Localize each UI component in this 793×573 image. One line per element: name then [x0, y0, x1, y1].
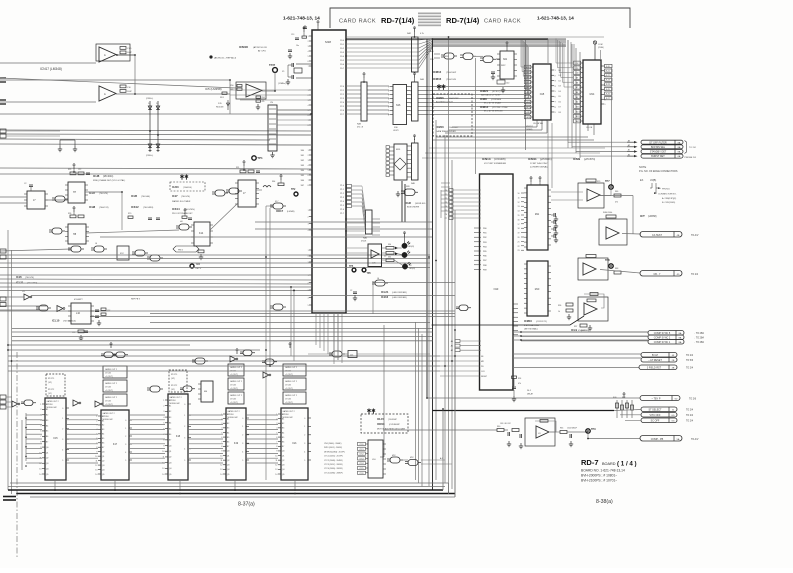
svg-text:CTC84: CTC84 [103, 416, 109, 418]
svg-text:5D: 5D [675, 399, 678, 401]
svg-text:MODEL 84C: MODEL 84C [170, 403, 181, 405]
led vcc [404, 233, 406, 237]
svg-text:B7: B7 [227, 446, 229, 448]
resistor after TP7 [614, 194, 621, 197]
wire eprom right vertical [611, 68, 613, 186]
svg-text:(2X84+): (2X84+) [146, 98, 154, 100]
svg-text:47k: 47k [262, 101, 265, 103]
wire y174 [0, 173, 311, 175]
gate ICM12a [444, 53, 454, 59]
flag LP RESET [641, 358, 677, 363]
svg-text:4: 4 [308, 51, 309, 53]
svg-text:Q0: Q0 [227, 451, 229, 453]
svg-text:B3: B3 [46, 420, 48, 422]
svg-text:8-27: 8-27 [606, 98, 610, 100]
cpu top parts [295, 37, 299, 39]
svg-text:6G: 6G [672, 415, 675, 417]
svg-text:0: 0 [242, 418, 243, 420]
svg-text:D7: D7 [559, 107, 561, 109]
svg-text:Q5: Q5 [102, 474, 104, 476]
svg-text:8: 8 [221, 446, 222, 448]
svg-text:ICM8: ICM8 [480, 97, 487, 101]
svg-text:P2.6: P2.6 [340, 110, 344, 112]
svg-text:P1.3: P1.3 [340, 197, 344, 199]
svg-text:Q5: Q5 [282, 474, 284, 476]
svg-text:2: 2 [163, 405, 164, 407]
svg-text:Q4: Q4 [282, 469, 284, 471]
vcc bottom tops [110, 344, 112, 348]
wire ram to flags rows [429, 147, 605, 149]
svg-text:1: 1 [163, 400, 164, 402]
L16 right pins [383, 443, 386, 445]
svg-text:COM: COM [598, 44, 603, 46]
svg-text:Q3: Q3 [169, 462, 171, 464]
svg-text:GATED OUT 2: GATED OUT 2 [285, 366, 297, 369]
svg-text:100P: 100P [127, 52, 132, 54]
parts left of TP2 [278, 183, 284, 186]
svg-text:7: 7 [308, 120, 309, 122]
svg-text:P1.7: P1.7 [340, 213, 344, 215]
parts right of L10 [95, 309, 99, 311]
svg-text:RT-175: RT-175 [171, 374, 177, 376]
svg-text:CTC1: CTC1 [359, 449, 363, 451]
wire opamp b to flag [600, 270, 640, 274]
svg-text:17: 17 [518, 224, 520, 226]
svg-text:1-621-748-13, 14: 1-621-748-13, 14 [283, 16, 320, 22]
svg-text:7: 7 [276, 441, 277, 443]
wire P0 bus [346, 39, 566, 41]
svg-text:1: 1 [555, 70, 556, 72]
gate pre M4 [183, 386, 192, 392]
gate J5 left [243, 350, 252, 356]
parts above ICH8 [70, 215, 76, 218]
resistor array RA1 [412, 37, 419, 72]
svg-text:P6: P6 [445, 214, 447, 216]
svg-text:ICN13: ICN13 [482, 157, 491, 161]
led D2 [402, 252, 407, 257]
svg-text:CTC84: CTC84 [105, 387, 111, 389]
wire ram1 vertical tails [547, 120, 549, 185]
svg-text:M12: M12 [410, 457, 414, 459]
svg-text:2: 2 [62, 429, 63, 431]
flip-flop ICH7 [68, 182, 85, 203]
svg-text:B4: B4 [282, 432, 284, 434]
svg-text:A: 2XB(13P)(F): A: 2XB(13P)(F) [662, 197, 677, 200]
svg-text:RT-172: RT-172 [171, 385, 177, 387]
svg-text:CTC5: CTC5 [359, 468, 363, 470]
svg-text:Q0: Q0 [169, 445, 171, 447]
svg-text:6: 6 [40, 431, 41, 433]
svg-text:12: 12 [275, 465, 277, 467]
wire TBY feed [427, 397, 640, 399]
svg-text:RESET: RESET [481, 376, 488, 378]
op-amp lpf [525, 418, 555, 446]
dac ICM11 body [527, 185, 548, 250]
dac1 left pins [524, 187, 527, 189]
N13 right pins upper [521, 192, 524, 194]
svg-text:D4: D4 [559, 91, 561, 93]
svg-text:C2: C2 [350, 290, 352, 292]
svg-text:D2: D2 [384, 256, 386, 258]
gate before H8 [52, 228, 62, 234]
svg-text:P0.1: P0.1 [340, 44, 344, 46]
svg-text:SC OFF: SC OFF [651, 420, 660, 423]
gate H3 oval [265, 359, 274, 365]
wire opamp A down [632, 196, 634, 234]
N13 left pins bottom control [440, 355, 480, 357]
svg-text:B4: B4 [227, 432, 229, 434]
svg-text:47k x 8: 47k x 8 [357, 127, 363, 129]
svg-text:VITC OFF: VITC OFF [650, 414, 661, 417]
svg-text:A4: A4 [526, 96, 528, 99]
inverter pre L10 [57, 306, 63, 312]
svg-text:(LM348): (LM348) [287, 211, 295, 213]
edge stubs left mid [0, 129, 6, 133]
svg-text:CONNECTOR NO.: CONNECTOR NO. [658, 194, 677, 196]
svg-text:Q4: Q4 [169, 468, 171, 470]
svg-text:(12MHz): (12MHz) [278, 83, 286, 85]
svg-text:Q1: Q1 [282, 455, 284, 457]
svg-text:13: 13 [518, 206, 520, 208]
gate M5 [195, 358, 205, 364]
eprom left pins [581, 62, 583, 64]
svg-text:P1.0: P1.0 [340, 185, 344, 187]
svg-text:TP6: TP6 [367, 273, 372, 275]
wire rows y306 [0, 305, 47, 307]
svg-text:ICM14: ICM14 [480, 105, 489, 109]
led D3 [402, 264, 407, 269]
flip-flop ICJ7a [27, 191, 45, 209]
svg-text:K14: K14 [199, 232, 204, 235]
svg-text:ICM16: ICM16 [436, 125, 444, 129]
flag COMP-PB [640, 436, 682, 442]
flag 3 FIELD RST [639, 365, 677, 370]
svg-text:K18: K18 [176, 435, 181, 438]
svg-text:MODEL 84C: MODEL 84C [47, 407, 58, 409]
dashed box ICM15 ICM16 [433, 94, 472, 136]
svg-text:Q3: Q3 [227, 465, 229, 467]
svg-text:P1.4: P1.4 [340, 201, 344, 203]
svg-text:K19: K19 [234, 442, 239, 445]
svg-text:7: 7 [555, 102, 556, 104]
svg-text:(27C256 - PGM: (27C256 - PGM [492, 107, 507, 109]
svg-text:D8: D8 [559, 112, 561, 114]
svg-text:D1: D1 [408, 243, 410, 245]
svg-text:ICM10: ICM10 [524, 319, 532, 323]
flag VITC OFF [641, 413, 677, 418]
svg-text:8-21: 8-21 [606, 70, 610, 72]
svg-text:P1.1: P1.1 [340, 189, 344, 191]
wire spine verticals left of N13 [440, 190, 442, 218]
band pin dots [25, 417, 27, 419]
svg-text:CTC0: CTC0 [359, 444, 363, 446]
svg-text:CTC4 (2080) : 2081F): CTC4 (2080) : 2081F) [324, 468, 343, 470]
svg-text:M GGMPT: M GGMPT [74, 299, 83, 301]
svg-text:B7: B7 [169, 440, 171, 442]
N13 left pins low boxes [455, 340, 460, 343]
dashed box ICJ16 [170, 182, 205, 191]
svg-text:TO 2/4: TO 2/4 [686, 410, 694, 412]
svg-text:B/W MN SEL: B/W MN SEL [651, 146, 666, 149]
wire eprom bottom routing [436, 136, 588, 138]
svg-text:7: 7 [40, 436, 41, 438]
dac ICM10 body [527, 261, 548, 316]
svg-text:5G: 5G [672, 421, 675, 423]
svg-text:1: 1 [308, 150, 309, 152]
inverter pre B4 [230, 356, 236, 362]
wire outputs top feed [568, 141, 627, 143]
svg-text:2: 2 [308, 41, 309, 43]
svg-text:10: 10 [518, 193, 520, 195]
op-amp ICT [599, 219, 627, 245]
svg-text:B3: B3 [102, 429, 104, 431]
wire eprom address bends [556, 39, 573, 64]
cpu vcc top [317, 22, 319, 26]
edge stubs y299 [0, 297, 6, 301]
gate row box [117, 246, 129, 260]
svg-text:Q2: Q2 [282, 460, 284, 462]
svg-text:P0.3: P0.3 [340, 52, 344, 54]
svg-text:+1 (OUT): +1 (OUT) [285, 402, 293, 404]
svg-text:R64: R64 [272, 181, 275, 183]
small box J15 [348, 351, 357, 358]
svg-text:R46: R46 [615, 191, 618, 193]
svg-text:+1 (OUT): +1 (OUT) [285, 374, 293, 376]
svg-text:P0.5: P0.5 [340, 60, 344, 62]
svg-text:Q1: Q1 [169, 451, 171, 453]
eprom ICM14 body [583, 60, 601, 124]
op-amp ICN17b [99, 86, 116, 101]
svg-text:B6: B6 [282, 441, 284, 443]
svg-text:2: 2 [96, 420, 97, 422]
flag DT OFF FILTER [641, 140, 683, 144]
svg-text:K15: K15 [53, 437, 58, 440]
svg-text:R29: R29 [597, 181, 600, 183]
svg-text:ICH6: ICH6 [405, 201, 411, 205]
wire cpu left mid bundle [230, 89, 312, 91]
cap below cpu [353, 291, 357, 293]
wire select rows [614, 410, 641, 411]
dac2 right pins [548, 265, 551, 267]
wire long rows y311-328 [0, 310, 455, 312]
svg-text:Q1: Q1 [227, 455, 229, 457]
svg-text:ICT: ICT [640, 214, 645, 218]
inverter LE1 left [24, 294, 30, 300]
svg-text:A2: A2 [451, 349, 453, 352]
cpu crystal circuit [296, 63, 312, 65]
counter block K19 [228, 364, 244, 376]
svg-text:9: 9 [276, 451, 277, 453]
svg-text:ICK12: ICK12 [131, 205, 139, 209]
svg-text:( 1 / 4 ): ( 1 / 4 ) [617, 461, 637, 468]
svg-text:1k: 1k [558, 311, 560, 313]
svg-text:0: 0 [125, 420, 126, 422]
svg-text:TO 2/4: TO 2/4 [686, 415, 694, 417]
svg-text:(AT28C16 + REF ADJ): (AT28C16 + REF ADJ) [214, 57, 236, 60]
svg-text:BVH-2000PS ; # 10801~: BVH-2000PS ; # 10801~ [581, 474, 617, 478]
svg-text:STANDBY DET: STANDBY DET [650, 151, 667, 154]
svg-text:CTC84: CTC84 [105, 401, 111, 403]
svg-text:XB4: XB4 [301, 170, 304, 172]
svg-text:B1: B1 [169, 405, 171, 407]
svg-text:CTC84: CTC84 [105, 373, 111, 375]
svg-text:ADDRESS LATCH: ADDRESS LATCH [436, 101, 453, 104]
svg-text:TO 2/4: TO 2/4 [686, 368, 694, 370]
wire opamp c to spine [433, 316, 585, 325]
svg-text:13: 13 [95, 469, 97, 471]
svg-text:(74LS04): (74LS04) [141, 196, 150, 198]
svg-text:→ TO 2B4: → TO 2B4 [693, 338, 704, 340]
asterisks ICJ16 [181, 175, 183, 180]
svg-text:R36: R36 [558, 305, 561, 307]
cpu left pins control [309, 209, 312, 211]
gate LM5 oval [24, 400, 33, 406]
svg-text:PIN NO.: PIN NO. [662, 189, 671, 191]
svg-text:12: 12 [95, 465, 97, 467]
svg-text:P0.4: P0.4 [340, 56, 344, 58]
counter block K17 [103, 366, 127, 378]
svg-text:5: 5 [308, 110, 309, 112]
svg-text:2: 2 [308, 95, 309, 97]
svg-text:ST SELECT: ST SELECT [649, 409, 663, 412]
svg-text:7: 7 [308, 180, 309, 182]
svg-text:(LED DRIVER): (LED DRIVER) [392, 292, 407, 294]
svg-text:0: 0 [184, 404, 185, 406]
svg-text:REF PB V: REF PB V [131, 299, 141, 301]
opamp c bias parts [566, 303, 573, 306]
inverter L19c [73, 400, 79, 406]
svg-text:D0: D0 [559, 70, 561, 72]
wire gate feed left [434, 53, 440, 55]
wire opamp a to b [134, 55, 136, 94]
svg-text:M58257: M58257 [526, 126, 533, 128]
svg-text:J6: J6 [377, 278, 379, 280]
small ic L16 [368, 440, 383, 478]
svg-text:4: 4 [388, 99, 389, 101]
svg-text:(74LS74): (74LS74) [99, 193, 108, 195]
svg-text:PB3: PB3 [483, 242, 487, 244]
flip-flop ICK14 [194, 222, 210, 246]
svg-text:(AT28C16 OR: (AT28C16 OR [253, 46, 267, 49]
svg-text:R24: R24 [518, 378, 521, 380]
parts below K14 [198, 250, 204, 253]
bus spine top bends [346, 36, 449, 38]
svg-text:14: 14 [95, 474, 97, 476]
svg-text:K17: K17 [113, 443, 118, 446]
sram ICM8 body [533, 64, 551, 120]
svg-text:XB2: XB2 [301, 160, 304, 162]
svg-text:Q4: Q4 [46, 468, 48, 470]
svg-text:A2: A2 [526, 106, 528, 109]
svg-text:PB6: PB6 [483, 256, 487, 258]
svg-text:PB V. INT PHASE DET: PB V. INT PHASE DET [172, 212, 193, 215]
svg-text:B6: B6 [227, 441, 229, 443]
wire connector to cpu [277, 109, 312, 111]
svg-text:1-621-748-13, 14: 1-621-748-13, 14 [537, 16, 574, 22]
svg-text:TO 2/4: TO 2/4 [686, 355, 694, 357]
svg-text:CN1 (2000) : 2000F): CN1 (2000) : 2000F) [324, 443, 342, 445]
svg-text:10: 10 [95, 456, 97, 458]
svg-text:16: 16 [518, 219, 520, 221]
svg-text:14: 14 [275, 474, 277, 476]
gate row oval c [135, 250, 145, 256]
svg-text:B5: B5 [102, 438, 104, 440]
svg-text:3: 3 [96, 425, 97, 427]
svg-text:ICJ8: ICJ8 [93, 174, 100, 178]
svg-text:(1/2): (1/2) [171, 378, 175, 380]
svg-text:PB9: PB9 [483, 269, 487, 271]
svg-text:B4: B4 [169, 423, 171, 425]
svg-text:L10: L10 [76, 312, 81, 315]
svg-text:M11: M11 [535, 214, 540, 216]
gate pre J7b a [215, 190, 225, 196]
svg-text:TO A/V: TO A/V [691, 438, 699, 441]
svg-text:2: 2 [388, 91, 389, 93]
left edge dark dashes [3, 496, 16, 498]
svg-text:TP37: TP37 [269, 63, 276, 67]
wire j gates [308, 353, 332, 355]
cpu left pins upper [309, 35, 312, 37]
svg-text:B: CXB(134D): B: CXB(134D) [662, 202, 675, 204]
svg-text:6: 6 [388, 107, 389, 109]
svg-text:9: 9 [163, 445, 164, 447]
svg-text:(μPC844C): (μPC844C) [540, 159, 552, 161]
asterisks ICL15 [368, 409, 370, 414]
svg-text:PB8: PB8 [483, 265, 487, 267]
gate ICL oval low [273, 304, 283, 310]
svg-text:MOTOR ADDRESS DECODER: MOTOR ADDRESS DECODER [377, 428, 406, 431]
svg-text:ICL21: ICL21 [381, 290, 389, 294]
svg-text:8: 8 [276, 446, 277, 448]
N13 left pins mid [474, 227, 481, 229]
svg-text:(74HC573P: (74HC573P [448, 98, 459, 100]
svg-text:A0: A0 [526, 116, 528, 119]
svg-text:C61 L30 C62: C61 L30 C62 [500, 423, 511, 425]
svg-text:5: 5 [304, 460, 305, 462]
eprom right pins [601, 65, 604, 67]
svg-text:P2.7: P2.7 [340, 114, 344, 116]
svg-text:9: 9 [604, 104, 605, 106]
svg-text:13: 13 [220, 469, 222, 471]
svg-text:BVH-2100PS ; # 10701~: BVH-2100PS ; # 10701~ [581, 479, 617, 483]
svg-text:14: 14 [162, 474, 164, 476]
svg-text:A-1: A-1 [440, 457, 443, 460]
svg-text:DATA TRANSCEIVER: DATA TRANSCEIVER [436, 130, 456, 133]
svg-text:RT-175: RT-175 [48, 378, 54, 380]
svg-text:CTC3: CTC3 [359, 458, 363, 460]
svg-text:P2.4: P2.4 [340, 102, 344, 104]
svg-text:(1/2): (1/2) [48, 382, 52, 384]
svg-text:TO 2/4: TO 2/4 [686, 421, 694, 423]
svg-text:2: 2 [308, 217, 309, 219]
flag STANDBY DET [641, 150, 683, 154]
asterisks ICM15 box [438, 84, 440, 90]
svg-text:B5: B5 [169, 428, 171, 430]
svg-text:RT-172: RT-172 [48, 389, 54, 391]
svg-text:CTC84: CTC84 [228, 414, 234, 416]
ground symbols mid-left [59, 146, 61, 149]
gate row oval a [71, 246, 81, 252]
svg-text:TP9: TP9 [591, 428, 596, 431]
flip-flop ICJ7b [238, 180, 256, 207]
svg-text:B3: B3 [282, 428, 284, 430]
svg-text:8-37(a): 8-37(a) [238, 502, 255, 508]
L16 left pin boxes [358, 442, 366, 445]
svg-text:XB1: XB1 [301, 155, 304, 157]
dac2 left pins [524, 263, 527, 265]
svg-text:GATED OUT 2: GATED OUT 2 [285, 394, 297, 397]
svg-text:LED(R): LED(R) [408, 246, 414, 248]
